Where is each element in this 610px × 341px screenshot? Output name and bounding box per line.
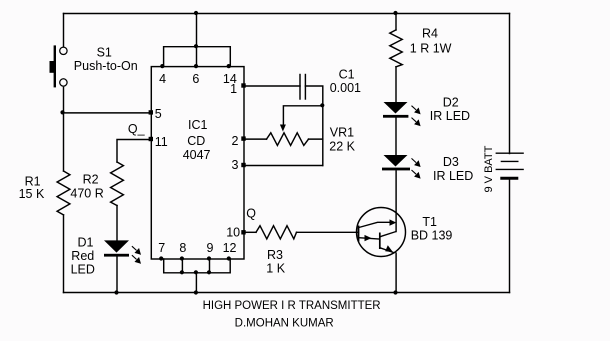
- wire VR1 to corner: [309, 138, 323, 140]
- pin pad 11: [149, 137, 153, 141]
- wire top rail: [64, 13, 510, 15]
- svg-text:IR LED: IR LED: [433, 169, 473, 183]
- wire pin9 stub: [209, 259, 211, 273]
- node C1-wiper: [320, 103, 324, 107]
- svg-text:470 R: 470 R: [70, 186, 103, 200]
- svg-text:22 K: 22 K: [329, 139, 355, 153]
- node pin7: [159, 256, 163, 260]
- resistor R3: [256, 226, 297, 239]
- pin pad 2: [241, 136, 245, 140]
- wire R4 top lead: [395, 14, 397, 30]
- wire D3 to collector: [395, 171, 397, 232]
- svg-text:15 K: 15 K: [19, 187, 45, 201]
- pin pad 10: [241, 230, 245, 234]
- wire R4 to D2: [395, 67, 397, 103]
- wire right rail upper: [509, 14, 511, 154]
- node pin12: [227, 256, 231, 260]
- wire ground drop: [195, 273, 197, 293]
- svg-text:5: 5: [155, 107, 162, 121]
- transistor T1 emitter arrowhead: [385, 245, 393, 252]
- svg-text:7: 7: [158, 241, 165, 255]
- wire pin10 to R3: [244, 231, 256, 233]
- resistor R2: [111, 162, 124, 206]
- svg-text:HIGH POWER I R TRANSMITTER: HIGH POWER I R TRANSMITTER: [203, 300, 381, 312]
- node pin6: [194, 64, 198, 68]
- wire D1 to bottom rail: [116, 257, 118, 292]
- node gnd D1: [114, 290, 118, 294]
- svg-text:BD 139: BD 139: [411, 229, 453, 243]
- wire D2 to D3: [395, 118, 397, 155]
- svg-text:D1: D1: [78, 236, 94, 250]
- potentiometer VR1 track: [267, 133, 309, 146]
- svg-text:Red: Red: [71, 249, 94, 263]
- svg-text:9 V BATT: 9 V BATT: [483, 145, 495, 192]
- wire pin3: [244, 165, 323, 167]
- svg-text:10: 10: [226, 226, 240, 240]
- wire R1 to bottom rail: [63, 215, 65, 293]
- battery BT1 plates: [496, 153, 524, 178]
- wire pin1: [244, 85, 300, 87]
- LED D3 cathode bar: [382, 168, 410, 171]
- wire pin5: [63, 112, 151, 114]
- wire pin11 bend: [117, 140, 151, 163]
- LED D3 triangle: [384, 155, 408, 167]
- svg-text:1 R 1W: 1 R 1W: [410, 42, 452, 56]
- svg-text:Q: Q: [246, 206, 256, 220]
- svg-text:D2: D2: [443, 96, 459, 110]
- wire right rail lower: [509, 180, 511, 293]
- svg-text:Push-to-On: Push-to-On: [74, 59, 138, 73]
- transistor T1 base arrowhead: [365, 235, 372, 241]
- wire bottom rail: [64, 292, 510, 294]
- svg-text:CD: CD: [187, 134, 205, 148]
- svg-text:T1: T1: [422, 215, 437, 229]
- node pin14: [227, 64, 231, 68]
- IC IC1 CD4047 box: [151, 67, 244, 259]
- svg-text:2: 2: [232, 134, 239, 148]
- svg-text:1: 1: [230, 82, 237, 96]
- node bus center: [194, 270, 198, 274]
- pin pad 5: [149, 110, 153, 114]
- LED D2 cathode bar: [383, 115, 408, 118]
- pin pad 1: [241, 83, 245, 87]
- switch S1 top contact: [60, 47, 67, 54]
- capacitor C1 plates: [299, 75, 301, 100]
- LED D3 arrows: [412, 158, 420, 177]
- wire left rail upper: [63, 14, 65, 48]
- switch S1 button: [50, 61, 57, 73]
- wire emitter to bottom rail: [395, 253, 397, 292]
- svg-text:Q_: Q_: [128, 122, 146, 136]
- resistor R1: [57, 171, 70, 215]
- svg-text:R3: R3: [267, 248, 283, 262]
- svg-text:8: 8: [179, 241, 186, 255]
- wire switch to junction: [63, 88, 65, 172]
- node vdd-pin6: [194, 11, 198, 15]
- wire pin2: [244, 138, 267, 140]
- node pin8: [180, 256, 184, 260]
- transistor T1 circle: [357, 208, 406, 257]
- wire R3 to base: [297, 231, 359, 233]
- wire C1 to corner: [305, 86, 322, 166]
- svg-text:11: 11: [155, 135, 168, 149]
- svg-text:R2: R2: [83, 172, 99, 186]
- LED D1 arrows: [132, 246, 140, 263]
- wire R2 to D1: [116, 206, 118, 241]
- switch S1 pole bar: [54, 45, 56, 87]
- LED D1 cathode bar: [104, 254, 129, 257]
- svg-text:IR LED: IR LED: [430, 109, 470, 123]
- transistor T1 collector arrowhead: [390, 219, 397, 225]
- node switch-pin5: [60, 110, 64, 114]
- node pin4: [160, 64, 164, 68]
- svg-text:D.MOHAN KUMAR: D.MOHAN KUMAR: [235, 317, 334, 329]
- svg-text:IC1: IC1: [188, 118, 208, 132]
- node gnd emitter: [393, 290, 397, 294]
- svg-text:9: 9: [207, 241, 214, 255]
- node pin9: [207, 256, 211, 260]
- svg-text:1 K: 1 K: [266, 262, 285, 276]
- wire vdd drop to pin6: [196, 14, 198, 67]
- svg-text:3: 3: [232, 158, 239, 172]
- svg-text:12: 12: [223, 241, 237, 255]
- node bus8: [180, 270, 184, 274]
- wire VR1 wiper: [283, 106, 322, 127]
- LED D1 triangle: [104, 240, 129, 252]
- svg-text:R4: R4: [422, 27, 438, 41]
- potentiometer VR1 wiper arrow: [280, 125, 286, 132]
- LED D2 triangle: [384, 102, 408, 114]
- switch S1 bottom contact: [60, 79, 67, 86]
- svg-text:4047: 4047: [183, 148, 211, 162]
- node gnd IC: [194, 290, 198, 294]
- node vdd-R4: [393, 11, 397, 15]
- resistor R4: [390, 30, 402, 67]
- pin pad 3: [241, 163, 245, 167]
- svg-text:S1: S1: [97, 46, 112, 60]
- svg-text:0.001: 0.001: [330, 81, 361, 95]
- svg-text:D3: D3: [443, 155, 459, 169]
- svg-text:6: 6: [192, 72, 199, 86]
- wire IC bottom bus: [164, 259, 231, 273]
- svg-text:4: 4: [159, 72, 166, 86]
- wire pin8 stub: [181, 259, 183, 273]
- wire IC top bus: [164, 47, 231, 67]
- transistor T1 internals: [359, 222, 397, 253]
- node bus9: [207, 270, 211, 274]
- svg-text:LED: LED: [71, 263, 95, 277]
- svg-text:VR1: VR1: [330, 125, 354, 139]
- LED D2 arrows: [412, 106, 420, 126]
- svg-text:C1: C1: [339, 67, 355, 81]
- node top bus center: [194, 44, 198, 48]
